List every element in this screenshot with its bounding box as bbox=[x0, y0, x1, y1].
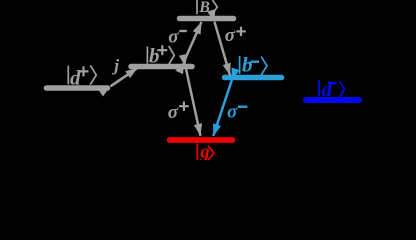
label |b+> bbox=[147, 45, 174, 64]
arrow sigma+ : B <-> b- bbox=[215, 22, 231, 76]
level d+ bbox=[47, 85, 108, 91]
arrow sigma- : B <-> b+ bbox=[184, 22, 202, 62]
level B bbox=[180, 16, 234, 22]
label |b-> bbox=[240, 56, 267, 75]
level b- bbox=[225, 75, 282, 81]
level g bbox=[170, 137, 233, 143]
svg-text:d: d bbox=[70, 65, 81, 89]
label |B> bbox=[197, 0, 217, 14]
svg-text:g: g bbox=[199, 141, 210, 160]
level b+ bbox=[131, 64, 192, 70]
svg-text:B: B bbox=[198, 0, 210, 16]
svg-text:σ: σ bbox=[168, 102, 179, 123]
svg-text:σ: σ bbox=[227, 102, 238, 123]
svg-text:d: d bbox=[322, 77, 333, 101]
svg-text:b: b bbox=[149, 43, 160, 67]
arrow sigma- : b- <-> g bbox=[213, 80, 232, 136]
label |d+> bbox=[68, 65, 96, 84]
level d- bbox=[306, 97, 359, 103]
svg-text:σ: σ bbox=[225, 25, 236, 46]
arrow sigma+ : b+ <-> g bbox=[186, 67, 201, 136]
svg-text:b: b bbox=[242, 53, 253, 77]
label |g> bbox=[197, 144, 214, 161]
svg-text:σ: σ bbox=[168, 27, 179, 48]
label |d-> bbox=[319, 80, 345, 97]
arrow j : d+ <-> b+ bbox=[111, 68, 138, 86]
